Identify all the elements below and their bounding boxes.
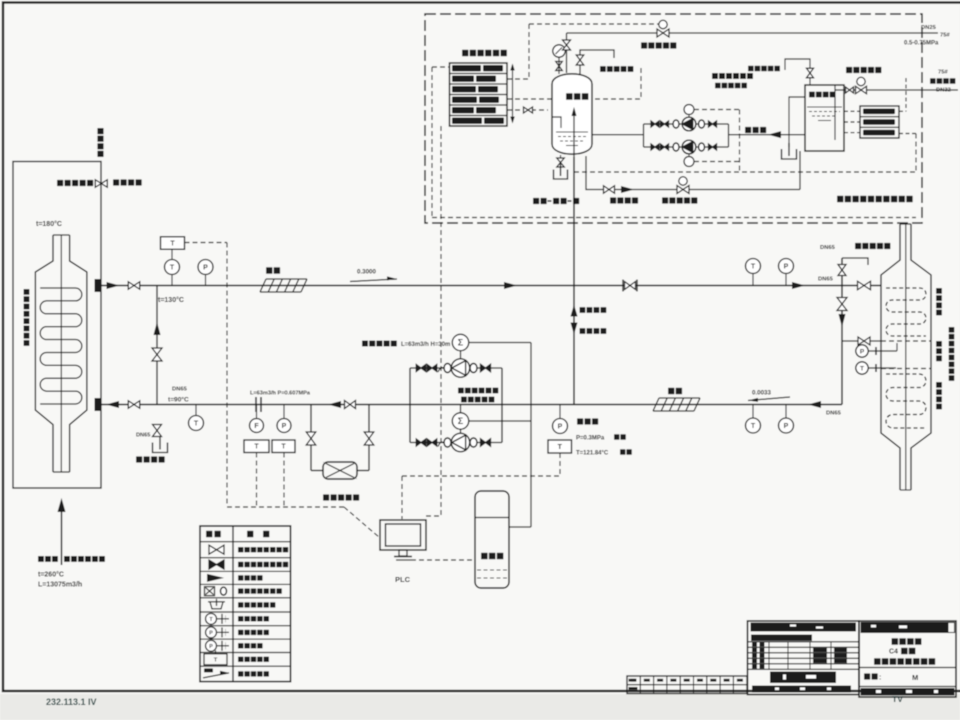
legend row line xyxy=(200,652,291,654)
label softened water pipe xyxy=(930,78,936,84)
revision strip col xyxy=(719,676,721,694)
legend row line xyxy=(200,611,291,613)
title sig col5 xyxy=(834,659,847,663)
svg-text:C4: C4 xyxy=(889,649,898,656)
legend row line xyxy=(200,557,291,559)
title grid hline xyxy=(748,668,860,670)
makeup pump upper xyxy=(682,117,696,131)
legend sym slope xyxy=(203,673,229,678)
legend row line xyxy=(200,665,291,667)
softened water tank xyxy=(805,85,844,151)
svg-text:T: T xyxy=(170,265,175,272)
svg-text:DN65: DN65 xyxy=(136,433,150,439)
left vessel vertical name label xyxy=(24,289,30,295)
legend name slope xyxy=(238,671,243,676)
drain solenoid valve xyxy=(677,186,689,194)
svg-text:P: P xyxy=(784,264,789,271)
legend row line xyxy=(200,597,291,599)
pump branch lower outlet xyxy=(470,438,477,447)
tank label xyxy=(809,92,815,98)
svg-text:L=63m3/h P=0.607MPa: L=63m3/h P=0.607MPa xyxy=(250,391,311,397)
label unit name bottom right xyxy=(837,196,843,202)
legend sym manual valve NO xyxy=(209,545,224,554)
svg-text:t=130°C: t=130°C xyxy=(158,296,184,304)
title divider xyxy=(859,667,956,669)
tank water level xyxy=(807,106,842,108)
legend name metal hose xyxy=(238,588,243,593)
svg-text:75#: 75# xyxy=(940,33,950,39)
title grid vline xyxy=(787,642,789,670)
legend name drain funnel xyxy=(238,602,243,607)
PLC stand xyxy=(399,550,407,556)
makeup suction pipe xyxy=(729,134,806,136)
revision strip col xyxy=(706,676,708,694)
legend name flow direction xyxy=(238,575,243,580)
svg-text:DN32: DN32 xyxy=(936,88,951,94)
label tuihuolu flue gas xyxy=(38,556,44,562)
label makeup solenoid xyxy=(846,67,852,73)
label xitong jiekong xyxy=(136,456,142,462)
svg-text:T: T xyxy=(194,421,199,428)
right T instrument tap xyxy=(856,362,868,374)
revision cell mark xyxy=(710,679,716,682)
signal to vessel xyxy=(507,109,548,111)
svg-text:T: T xyxy=(751,264,756,271)
supply expansion joint xyxy=(622,280,624,292)
logo band xyxy=(770,672,836,684)
legend name transmitter box xyxy=(238,657,243,662)
makeup manifolds xyxy=(643,124,645,147)
title grid vline xyxy=(768,642,770,670)
signal to vent solenoid xyxy=(507,78,529,80)
label tank auto vent xyxy=(748,66,754,72)
pressure setpoint text row 2 xyxy=(452,76,474,82)
title sig col5 xyxy=(834,648,847,652)
title grid vline xyxy=(830,642,832,670)
auto vent right xyxy=(842,258,868,265)
return orifice meter xyxy=(255,397,257,412)
left vessel outlet flange xyxy=(95,279,102,292)
svg-text:T: T xyxy=(170,240,175,247)
bypass bottom runs xyxy=(311,470,323,472)
pump branch upper outlet xyxy=(470,364,477,373)
svg-text::: : xyxy=(879,675,881,682)
tank connection row 1 xyxy=(863,109,895,115)
revision strip col xyxy=(666,676,668,694)
pressure gauge xyxy=(553,45,565,57)
legend name instrument 3 xyxy=(238,643,243,648)
pressure control row line 1 xyxy=(450,73,508,75)
bypass right leg xyxy=(368,405,370,471)
company name bar xyxy=(751,623,857,632)
svg-text:75#: 75# xyxy=(938,70,948,76)
pressure control row line 3 xyxy=(450,94,508,96)
title sig col4 xyxy=(813,648,827,652)
return F instrument xyxy=(256,405,258,419)
revision cell mark xyxy=(724,679,730,682)
revision cell mark xyxy=(737,679,743,682)
svg-text:0.3000: 0.3000 xyxy=(357,269,376,276)
revision strip col xyxy=(653,676,655,694)
signal dash F xyxy=(256,453,258,507)
svg-text:Σ: Σ xyxy=(458,338,464,348)
svg-text:P: P xyxy=(282,423,287,430)
pump signal dashes xyxy=(694,109,740,111)
svg-text:T: T xyxy=(860,365,864,372)
label gongyelu zhuanye xyxy=(57,180,63,186)
supply flow arrow at vessel xyxy=(107,282,120,289)
flow totalizer upper xyxy=(452,334,468,350)
supply insulation hatch xyxy=(266,278,307,280)
pressure setpoint text row 4 xyxy=(452,97,477,103)
discipline boundary vertical label xyxy=(97,128,103,134)
signal dash P xyxy=(283,453,285,507)
tank connection row 2 xyxy=(863,119,895,125)
setpoint range arrow xyxy=(512,65,514,122)
legend row line xyxy=(200,541,291,543)
title line3 xyxy=(874,658,881,665)
stabilizer drop line xyxy=(573,157,575,405)
title grid hline xyxy=(748,652,860,654)
legend sym instrument 1 xyxy=(206,613,217,624)
label drain solenoid xyxy=(662,197,668,203)
return T instrument xyxy=(195,405,197,416)
svg-text:T: T xyxy=(751,423,756,430)
overpressure drain arrow xyxy=(621,186,634,193)
label VFD circulating pumps xyxy=(458,388,464,394)
label set params xyxy=(362,341,368,347)
svg-text:P: P xyxy=(209,644,213,650)
label vent solenoid xyxy=(641,42,647,48)
pressure control row line 2 xyxy=(450,83,508,85)
F transmitter box xyxy=(244,440,269,453)
supply shutoff valve left xyxy=(128,282,140,290)
tank connection box xyxy=(860,106,899,138)
vessel drain valve xyxy=(560,155,562,168)
title right bottom band xyxy=(861,688,955,696)
tank connection row 3 xyxy=(863,130,895,136)
label baowen bottom xyxy=(668,388,674,394)
bypass left leg xyxy=(310,405,312,471)
legend name instrument 2 xyxy=(238,630,243,635)
overpressure drain line xyxy=(586,156,800,190)
legend name instrument 1 xyxy=(238,616,243,621)
legend sym instrument 3 xyxy=(206,640,217,651)
pressure control row line 5 xyxy=(450,115,508,117)
svg-text:T: T xyxy=(254,444,259,451)
left branch pipe xyxy=(156,286,158,405)
legend name manual valve NO xyxy=(238,547,243,552)
label auto vent valve right xyxy=(855,243,861,249)
pressure control unit box xyxy=(450,63,508,126)
svg-text:T: T xyxy=(558,444,563,451)
high pressure up arrow xyxy=(571,305,578,317)
stabilizer internal riser xyxy=(573,115,575,157)
circulating pump lower xyxy=(451,433,469,451)
svg-text:L=13075m3/h: L=13075m3/h xyxy=(38,582,82,589)
valve on battery limit (discipline split) xyxy=(95,180,107,188)
left vessel return flange xyxy=(95,398,102,411)
return insulation hatch xyxy=(659,397,700,399)
legend sym transmitter box xyxy=(204,654,227,665)
title grid vline xyxy=(809,642,811,670)
right P instrument tap xyxy=(856,345,868,357)
title sig col4 xyxy=(813,659,827,663)
stabilizer vessel body xyxy=(552,74,592,154)
return arrow right xyxy=(808,401,821,408)
supply valve at right vessel xyxy=(858,281,871,290)
makeup pump branch upper xyxy=(651,121,659,127)
signal to auto vent xyxy=(507,98,641,100)
revision cell mark xyxy=(644,679,650,682)
left vessel axis xyxy=(60,235,62,472)
svg-text:Σ: Σ xyxy=(458,416,464,426)
title grid hline xyxy=(748,646,860,648)
right riser down arrow xyxy=(839,314,846,327)
right vessel lower coil xyxy=(886,374,926,428)
tank overflow xyxy=(789,97,805,147)
revision strip col xyxy=(693,676,695,694)
return arrow mid xyxy=(328,401,341,408)
tank box signal dashes xyxy=(844,110,860,112)
supply T instrument xyxy=(752,274,754,286)
right vessel section labels xyxy=(936,288,942,294)
left drain funnel xyxy=(153,443,168,453)
svg-text:232.113.1 IV: 232.113.1 IV xyxy=(46,697,97,707)
left vessel outline xyxy=(35,235,53,472)
PLC monitor xyxy=(380,520,426,550)
svg-text:TV: TV xyxy=(892,694,903,704)
overpressure drain valve xyxy=(604,186,615,194)
signal bus left xyxy=(431,67,433,218)
svg-text:t=180°C: t=180°C xyxy=(36,220,62,228)
VFD inner line xyxy=(475,517,509,519)
tank vent loop xyxy=(785,59,810,85)
svg-text:P: P xyxy=(860,348,865,355)
signal bus bottom xyxy=(432,217,916,219)
svg-text:L=63m3/h H=30m: L=63m3/h H=30m xyxy=(401,342,450,348)
right riser xyxy=(841,258,843,405)
revision strip col xyxy=(639,676,641,694)
legend sym flow direction xyxy=(207,574,224,582)
revision cell mark xyxy=(670,679,676,682)
upper P instrument xyxy=(205,275,207,286)
return shutoff valve left xyxy=(128,401,140,409)
pump loop manifolds xyxy=(409,368,411,443)
mid branch to right vessel xyxy=(842,340,881,342)
svg-text:0.0033: 0.0033 xyxy=(752,390,771,397)
revision cell mark xyxy=(657,679,663,682)
stabilizer water level xyxy=(556,131,588,133)
pressurization unit boundary box xyxy=(425,14,922,223)
circulating pump upper xyxy=(451,359,469,377)
revision cell mark xyxy=(697,679,703,682)
svg-text:P: P xyxy=(203,265,208,272)
supply pipe xyxy=(101,285,881,287)
revision cell mark xyxy=(684,679,690,682)
pressure setpoint text row 1 xyxy=(452,65,481,71)
backwash filter xyxy=(323,462,357,479)
T transmitter box upper xyxy=(161,237,185,250)
svg-text:P=0.3MPa: P=0.3MPa xyxy=(576,436,605,442)
return valve mid xyxy=(345,401,356,409)
label makeup pumps xyxy=(712,73,718,79)
legend name manual valve NC xyxy=(238,562,243,567)
svg-text:P: P xyxy=(558,424,563,431)
left drain valve xyxy=(153,425,162,437)
tank dip tube xyxy=(834,85,836,140)
svg-text:DN25: DN25 xyxy=(921,25,937,31)
signal dash pressure point to PLC xyxy=(559,453,561,476)
legend row line xyxy=(200,638,291,640)
legend sym metal hose xyxy=(205,587,215,596)
svg-text:DN65: DN65 xyxy=(818,277,834,283)
pressure setpoint text row 6 xyxy=(452,118,482,124)
makeup pump branch lower xyxy=(651,144,659,150)
stabilizer vessel label xyxy=(566,93,573,100)
annealing furnace gas inlet arrow xyxy=(61,512,63,565)
legend sym drain funnel xyxy=(208,602,225,609)
revision strip col xyxy=(732,676,734,694)
svg-text:P: P xyxy=(209,631,213,637)
title sig col1 xyxy=(752,664,757,668)
pressure point transmitter box xyxy=(548,440,572,453)
makeup suction arrow xyxy=(768,131,781,138)
revision strip xyxy=(627,676,747,694)
label auto vent valve xyxy=(600,66,606,72)
legend header xyxy=(206,531,212,537)
VFD dashed rows xyxy=(477,569,507,571)
label pressure control unit xyxy=(462,50,468,56)
label makeup header xyxy=(745,127,751,133)
address band xyxy=(752,686,851,693)
VFD label xyxy=(481,553,488,560)
left branch valve xyxy=(152,348,162,361)
label dingyadian xyxy=(577,418,583,424)
legend sym instrument 2 xyxy=(206,627,217,638)
right vessel axis xyxy=(905,224,907,490)
enclosure box (industrial furnace battery limit) xyxy=(13,162,101,489)
revision cell mark xyxy=(631,679,637,682)
VFD box xyxy=(475,491,509,588)
svg-text:M: M xyxy=(912,673,918,682)
pressure point P instrument xyxy=(559,405,561,419)
signal line totalizers to VFD xyxy=(530,343,532,528)
makeup solenoid valve xyxy=(856,86,867,94)
supply flow arrow right xyxy=(792,282,805,289)
label baowen top xyxy=(266,267,272,273)
right vessel name vertical label xyxy=(949,327,955,333)
svg-text:T: T xyxy=(281,444,286,451)
supply slope symbol xyxy=(350,279,397,282)
title sig col5 xyxy=(834,653,847,657)
right riser valve xyxy=(837,298,847,311)
svg-text:DN65: DN65 xyxy=(820,245,836,251)
svg-text:0.5-0.75MPa: 0.5-0.75MPa xyxy=(904,41,939,47)
signal drop to PLC xyxy=(440,126,442,516)
legend sym manual valve NC xyxy=(209,560,224,569)
vent line from vessel top xyxy=(566,33,568,73)
makeup pump suction header xyxy=(592,134,644,136)
pump branch lower valves xyxy=(416,439,426,446)
svg-text:P: P xyxy=(784,423,789,430)
right vessel upper coil xyxy=(886,288,926,336)
svg-text:T: T xyxy=(214,658,218,664)
legend row line xyxy=(200,583,291,585)
return arrow into vessel xyxy=(106,401,119,408)
title center grid xyxy=(748,641,860,643)
label fanchong filter xyxy=(323,494,329,500)
return pipe xyxy=(101,404,842,406)
legend row line xyxy=(200,625,291,627)
legend table frame xyxy=(200,526,291,682)
title grid hline xyxy=(748,657,860,659)
P transmitter box xyxy=(272,440,295,453)
bypass right valve xyxy=(364,432,374,445)
title sig col1 xyxy=(752,642,757,646)
title sig col1 xyxy=(752,653,757,657)
left branch up arrow xyxy=(154,322,161,335)
upper T instrument xyxy=(171,275,173,286)
title sig col4 xyxy=(813,653,827,657)
title line1 xyxy=(892,638,899,645)
makeup pump lower xyxy=(682,140,696,154)
auto vent on vessel xyxy=(580,50,614,74)
pump branch upper valves xyxy=(416,365,426,372)
pressure setpoint text row 3 xyxy=(452,86,476,92)
svg-text:t=90°C: t=90°C xyxy=(168,396,189,404)
bypass left valve xyxy=(306,432,316,445)
label tuhao xyxy=(864,673,870,679)
svg-text:F: F xyxy=(254,423,259,430)
svg-text:DN65: DN65 xyxy=(826,411,842,417)
makeup pump motor circles xyxy=(684,105,694,115)
title right outer xyxy=(859,621,956,697)
legend row line xyxy=(200,570,291,572)
svg-text:DN65: DN65 xyxy=(172,387,188,393)
return P instrument right xyxy=(785,405,787,419)
stabilizer level tap xyxy=(552,117,561,128)
return slope symbol xyxy=(748,397,790,401)
left vessel coil xyxy=(40,288,82,404)
signal dashes from T-box to bus xyxy=(185,242,228,244)
flow totalizer lower xyxy=(452,413,468,429)
supply mid flow arrow xyxy=(504,282,517,289)
title divider2 xyxy=(859,686,956,688)
title sig col1 xyxy=(752,648,757,652)
vessel drain funnel xyxy=(554,170,568,180)
supply P instrument xyxy=(785,274,787,286)
label tongfeng zhuanye xyxy=(113,179,119,185)
vent header xyxy=(567,32,939,34)
T-box to circle link xyxy=(171,249,173,259)
label equipment-control-cabinet xyxy=(533,198,539,204)
tank overflow funnel xyxy=(782,149,797,159)
svg-text:t=260°C: t=260°C xyxy=(38,571,64,579)
makeup inlet line xyxy=(835,89,958,91)
svg-text:PLC: PLC xyxy=(395,575,411,584)
title grid hline xyxy=(748,663,860,665)
title center outer xyxy=(748,621,860,695)
return P instrument xyxy=(283,405,285,419)
tank drain drop xyxy=(799,151,801,190)
right vessel section dividers xyxy=(881,340,931,342)
certificate bar xyxy=(751,635,812,641)
pressure control row line 4 xyxy=(450,104,508,106)
revision cell mark2 xyxy=(629,687,638,690)
svg-text:T=121.84°C: T=121.84°C xyxy=(576,451,609,457)
label overpressure drain xyxy=(610,197,616,203)
